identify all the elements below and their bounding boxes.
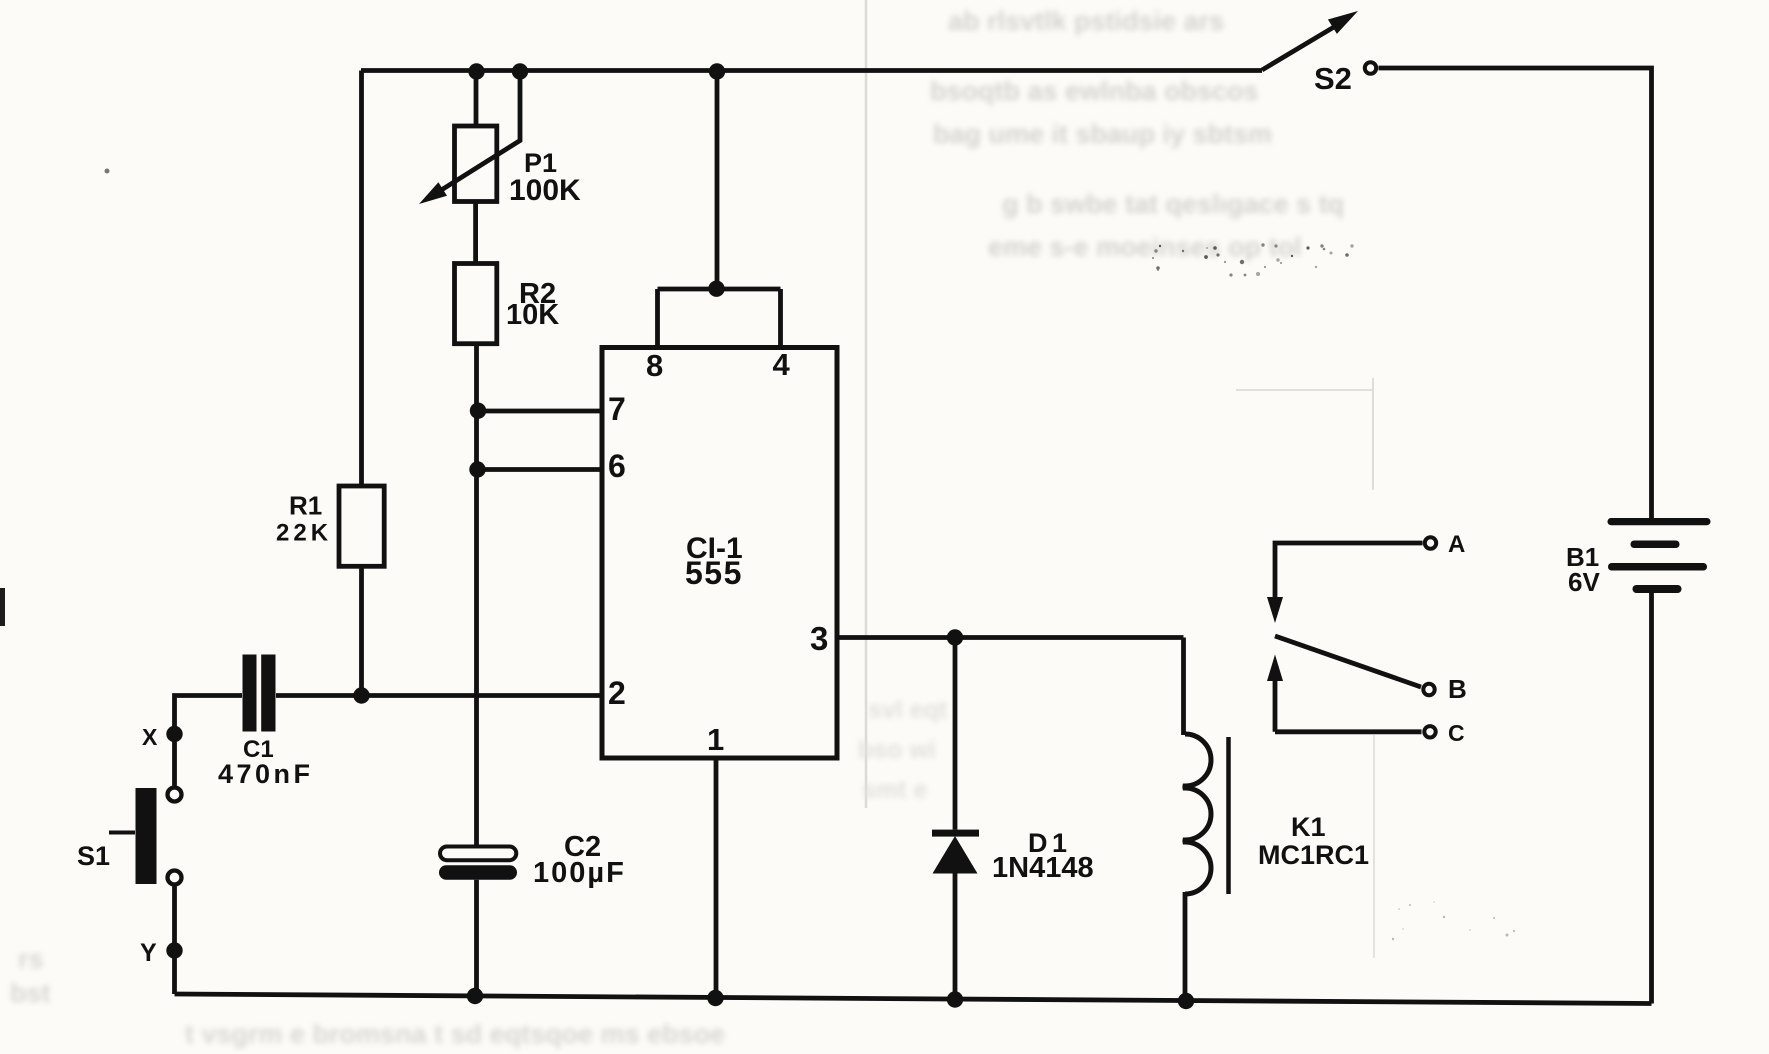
pushbutton S1	[109, 788, 157, 884]
node pin1 ground	[707, 990, 723, 1006]
svg-text:bag ume it sbaup iy sbtsm: bag ume it sbaup iy sbtsm	[933, 119, 1272, 149]
node pin7	[470, 403, 486, 419]
svg-text:6V: 6V	[1568, 567, 1600, 597]
switch S2	[1262, 11, 1376, 74]
resistor R2	[455, 264, 497, 344]
contact terminal B	[1423, 684, 1434, 695]
wire pin 3 output	[837, 635, 1184, 640]
contact terminal A	[1425, 537, 1436, 548]
wire R1 to node	[359, 566, 364, 695]
svg-text:S2: S2	[1314, 61, 1352, 96]
node supply drop	[709, 63, 725, 79]
node P1 top	[468, 63, 484, 79]
wire C2 to ground rail	[474, 880, 479, 996]
svg-text:4: 4	[773, 347, 791, 382]
svg-text:R1: R1	[289, 491, 322, 521]
svg-text:100K: 100K	[509, 174, 581, 207]
svg-text:bst: bst	[10, 978, 51, 1008]
svg-text:3: 3	[810, 620, 828, 657]
node D1 ground	[947, 991, 963, 1007]
node D1 top	[947, 629, 963, 645]
node bracket	[708, 281, 724, 297]
svg-text:ab rlsvtlk pstidsie ars: ab rlsvtlk pstidsie ars	[948, 6, 1224, 36]
contact terminal C	[1424, 726, 1435, 737]
relay contact A wire with arrow	[1267, 543, 1423, 623]
node K1 ground	[1178, 993, 1194, 1009]
wire pin 7	[477, 409, 602, 414]
svg-text:S1: S1	[77, 841, 110, 871]
wire C1 to pin 2	[276, 693, 602, 698]
diode D1	[932, 638, 979, 1000]
node X	[166, 726, 182, 742]
svg-text:Y: Y	[140, 939, 157, 967]
node Y	[166, 942, 182, 958]
relay armature to B	[1275, 636, 1421, 687]
svg-text:K1: K1	[1291, 812, 1326, 842]
wire top rail left	[361, 68, 1262, 73]
svg-text:8: 8	[646, 348, 663, 383]
wire bottom ground rail	[175, 994, 1652, 1004]
wire P1 to R2	[473, 202, 478, 264]
wire top rail right	[1379, 68, 1652, 518]
relay contact C wire with up arrow	[1267, 655, 1422, 732]
svg-text:A: A	[1448, 531, 1465, 558]
svg-text:X: X	[142, 724, 158, 750]
wire X node to C1 corner	[175, 696, 243, 786]
capacitor C2	[439, 847, 517, 880]
svg-text:1: 1	[707, 722, 724, 757]
S1 upper contact	[168, 788, 182, 802]
svg-text:bso wi: bso wi	[858, 736, 936, 764]
resistor R1	[339, 486, 384, 566]
svg-text:470nF: 470nF	[218, 759, 314, 789]
svg-text:555: 555	[685, 555, 743, 591]
wire pin 1 to ground	[714, 758, 719, 998]
svg-text:bsoqtb as ewlnba obscos: bsoqtb as ewlnba obscos	[930, 76, 1259, 106]
svg-text:C: C	[1448, 720, 1465, 746]
battery B1	[1608, 518, 1711, 593]
svg-text:2: 2	[608, 675, 626, 711]
S1 lower contact	[168, 871, 182, 885]
wire battery to bottom-right corner	[1649, 593, 1654, 1004]
node R1 bottom	[353, 687, 369, 703]
wire left rail to R1	[359, 71, 364, 487]
svg-text:smt e: smt e	[862, 776, 927, 804]
svg-text:svl eqt: svl eqt	[868, 696, 948, 724]
svg-text:t vsgrm e bromsna t sd eqtsq: t vsgrm e bromsna t sd eqtsqoe ms ebsoe	[185, 1019, 725, 1049]
svg-text:B: B	[1448, 674, 1467, 704]
svg-text:1N4148: 1N4148	[992, 852, 1094, 884]
svg-text:eme s-e moeinses op tol: eme s-e moeinses op tol	[988, 232, 1302, 262]
wire pin 6	[477, 467, 602, 472]
svg-text:7: 7	[608, 391, 626, 427]
wire bracket pins 8 and 4	[658, 289, 781, 348]
svg-text:g b swbe tat qeslıgace s tq: g b swbe tat qeslıgace s tq	[1002, 189, 1344, 219]
capacitor C1	[243, 655, 276, 732]
svg-text:rs: rs	[18, 944, 44, 974]
wire left column below S1	[172, 887, 177, 995]
wire supply drop to pins 8-4	[715, 71, 720, 290]
svg-text:10K: 10K	[506, 299, 559, 331]
relay coil K1	[1184, 638, 1212, 1002]
svg-text:100µF: 100µF	[533, 857, 626, 889]
relay K1 core bar	[1226, 737, 1231, 894]
node pin6	[469, 461, 485, 477]
wire R2 down to C2	[474, 344, 479, 847]
svg-text:6: 6	[608, 448, 626, 484]
IC CI-1 555 timer body	[602, 348, 837, 759]
node C2 ground	[467, 988, 483, 1004]
svg-text:MC1RC1: MC1RC1	[1258, 840, 1369, 870]
potentiometer P1	[419, 72, 520, 205]
node P1 wiper top	[512, 63, 528, 79]
svg-text:22K: 22K	[276, 520, 332, 547]
